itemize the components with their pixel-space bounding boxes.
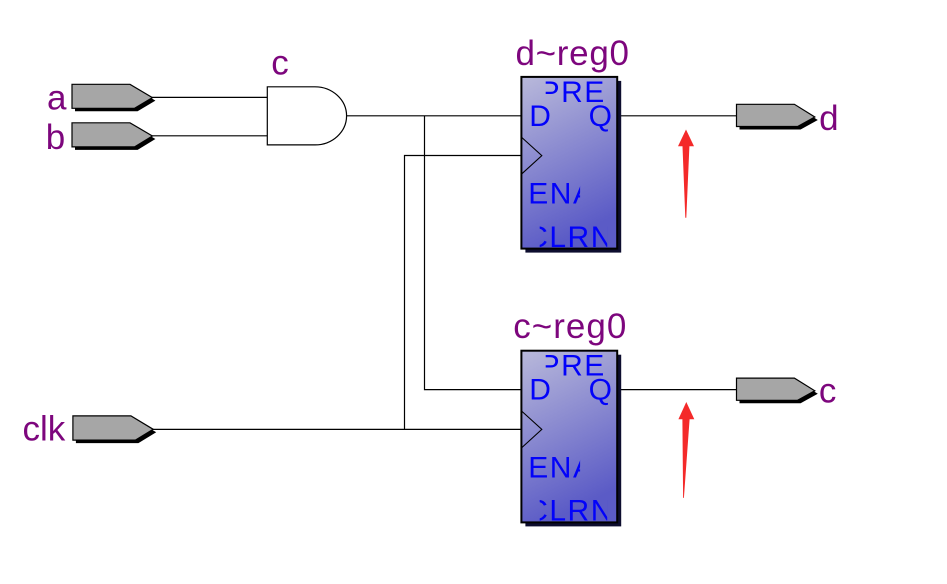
- AND gate c: [267, 87, 346, 145]
- output pin d: [737, 104, 818, 129]
- wire c out: c~reg0 Q output to pin c: [617, 389, 736, 391]
- U2 shadow: [525, 355, 621, 527]
- svg-text:d: d: [819, 99, 838, 138]
- output pin c: [737, 378, 818, 403]
- svg-text:d~reg0: d~reg0: [516, 34, 630, 73]
- wire clk branch: up to d~reg0 clock input: [405, 156, 522, 430]
- input pin clk: [73, 416, 156, 443]
- flip-flop U2 c~reg0: [521, 350, 621, 528]
- svg-text:c: c: [819, 372, 837, 411]
- annotation arrow 2 (red, at c output): [678, 402, 694, 498]
- svg-text:Q: Q: [589, 100, 612, 133]
- U1 shadow: [525, 81, 621, 253]
- wire c: AND output to d~reg0 D input: [347, 115, 522, 117]
- svg-text:D: D: [529, 100, 551, 133]
- svg-text:D: D: [529, 374, 551, 407]
- U2 body: [521, 351, 617, 523]
- wire d: d~reg0 Q output to pin d: [617, 115, 736, 117]
- U1 clock triangle: [521, 137, 541, 174]
- wire a: pin a to AND input: [152, 96, 267, 98]
- input pin b: [72, 123, 155, 150]
- annotation arrow 1 (red, at d output): [678, 130, 694, 218]
- wire c branch: down to c~reg0 D input: [425, 116, 522, 390]
- flip-flop U1 d~reg0: [521, 76, 621, 254]
- svg-text:a: a: [47, 79, 67, 118]
- svg-text:clk: clk: [23, 409, 66, 448]
- svg-text:c: c: [271, 44, 289, 83]
- wire b: pin b to AND input: [152, 135, 267, 137]
- U2 clock triangle: [521, 411, 541, 448]
- svg-text:c~reg0: c~reg0: [513, 307, 627, 346]
- input pin a: [72, 84, 155, 111]
- U1 body: [521, 77, 617, 249]
- svg-text:b: b: [46, 118, 65, 157]
- wire clk: pin clk to c~reg0 clock input: [152, 428, 521, 430]
- svg-text:Q: Q: [589, 374, 612, 407]
